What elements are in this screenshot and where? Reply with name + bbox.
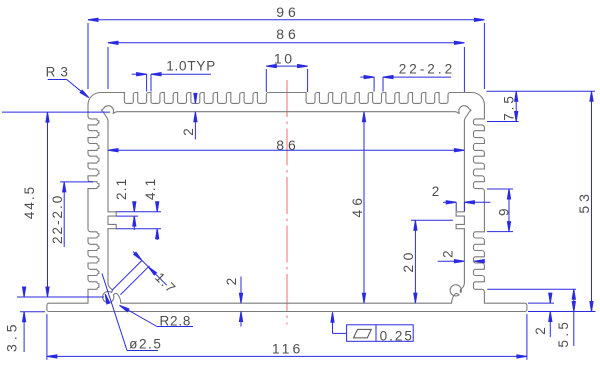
dimension 86 interior width xyxy=(108,149,464,152)
svg-text:116: 116 xyxy=(272,340,303,356)
dimension 9 right wall flat xyxy=(487,189,513,232)
dimension 7.5 right top xyxy=(487,91,596,121)
dimension 2 base thickness right xyxy=(528,293,554,337)
svg-text:2: 2 xyxy=(440,250,455,258)
dimension 3.5 left step xyxy=(20,287,45,352)
svg-text:46: 46 xyxy=(349,194,365,218)
profile inner outline with screw bosses xyxy=(101,106,471,303)
dimension 2 top wall thickness xyxy=(194,93,197,139)
centerline xyxy=(286,80,288,325)
flatness tolerance frame 0.25 xyxy=(331,312,413,341)
svg-text:10: 10 xyxy=(274,50,295,66)
svg-text:5.5: 5.5 xyxy=(556,319,571,348)
dimension 20 slot height xyxy=(411,220,453,303)
svg-text:3.5: 3.5 xyxy=(3,320,19,351)
svg-text:2: 2 xyxy=(432,184,440,199)
dimension 2 base thickness xyxy=(239,277,242,327)
dimension 86 top inner width xyxy=(108,41,464,92)
dimension 22-2.2 top grooves xyxy=(360,76,451,92)
svg-text:96: 96 xyxy=(276,4,300,20)
svg-text:0.25: 0.25 xyxy=(380,329,414,344)
svg-text:7.5: 7.5 xyxy=(502,93,517,121)
dimension 1.0TYP tooth width xyxy=(132,73,211,92)
profile outer outline xyxy=(47,93,527,312)
svg-text:44.5: 44.5 xyxy=(22,185,37,219)
dimension 44.5 left height xyxy=(2,112,110,297)
svg-text:2: 2 xyxy=(181,128,196,136)
svg-text:22-2.2: 22-2.2 xyxy=(399,62,455,77)
radius label R2.8 with leader xyxy=(119,304,193,327)
hole label diameter 2.5 with leader xyxy=(102,274,158,351)
dimension 10 center gap xyxy=(266,65,307,93)
svg-text:2.1: 2.1 xyxy=(114,178,129,200)
svg-text:2: 2 xyxy=(533,327,548,335)
svg-text:ø2.5: ø2.5 xyxy=(129,337,162,352)
svg-text:2: 2 xyxy=(224,278,239,286)
svg-text:1.0TYP: 1.0TYP xyxy=(166,59,216,74)
svg-text:20: 20 xyxy=(400,248,416,273)
flatness symbol parallelogram xyxy=(354,329,372,338)
svg-text:86: 86 xyxy=(276,137,300,153)
dimension 2.1 tab thickness xyxy=(116,202,161,230)
svg-text:22-2.0: 22-2.0 xyxy=(50,194,65,244)
radius label R3 with leader xyxy=(48,80,90,99)
dimension 96 top overall width xyxy=(88,18,484,89)
svg-text:53: 53 xyxy=(576,190,592,214)
dimension 1.7 slit width xyxy=(112,252,167,295)
dimension 116 base width xyxy=(47,314,527,360)
svg-text:4.1: 4.1 xyxy=(143,178,158,200)
svg-text:9: 9 xyxy=(497,208,512,216)
svg-text:R2.8: R2.8 xyxy=(160,313,192,328)
svg-text:R3: R3 xyxy=(46,64,73,79)
dimension 22-2.0 side grooves xyxy=(60,182,93,247)
svg-text:86: 86 xyxy=(276,26,300,42)
dimension 53 overall height xyxy=(528,91,596,311)
dimension 4.1 tabs span xyxy=(156,202,159,240)
dimension 2 right wall thickness xyxy=(438,260,485,263)
dimension 2 right tab depth xyxy=(443,201,490,211)
dimension 5.5 right step height xyxy=(487,289,576,346)
dimension 46 interior height xyxy=(362,112,365,304)
